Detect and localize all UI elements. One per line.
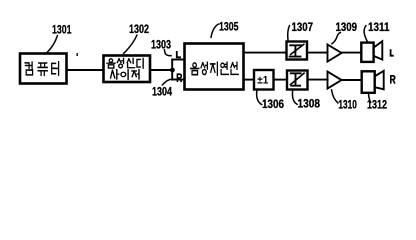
wire amp 1310 to speaker 1312 <box>342 79 362 81</box>
wire amp 1309 to speaker 1311 <box>342 52 362 54</box>
R channel letter at speaker 1312 <box>391 76 395 84</box>
L channel letter at 1305 input <box>177 51 181 57</box>
leader line 1312 <box>369 94 371 103</box>
label text 음성지연선 (voice delay line) <box>191 62 239 75</box>
amplifier triangle 1309 <box>328 45 342 62</box>
R channel letter at 1305 input <box>177 74 181 82</box>
variable attenuator block 1308 <box>287 71 308 90</box>
wire 1308 to amp 1310 <box>308 79 328 81</box>
wire 1302 to junction <box>150 69 172 71</box>
attenuator symbol in 1308 <box>290 73 304 86</box>
svg-text:1309: 1309 <box>336 20 358 34</box>
svg-text:1307: 1307 <box>292 20 314 34</box>
computer block 1301 <box>20 54 67 84</box>
variable attenuator block 1307 <box>287 42 308 60</box>
svg-text:1308: 1308 <box>298 97 321 111</box>
label text 사이저 (sizer line2) <box>111 70 139 80</box>
wire 1305 to 1307 (top row) <box>244 52 287 54</box>
leader line 1310 <box>332 90 339 103</box>
svg-text:1302: 1302 <box>129 22 149 36</box>
label text 컴퓨터 (computer) <box>25 62 59 76</box>
leader line 1303 <box>164 50 171 56</box>
wire 1305 to 1306 (bottom row) <box>244 79 255 81</box>
stray scan mark <box>76 53 78 56</box>
leader line 1301 <box>47 36 58 54</box>
voice synthesizer block 1302 <box>104 56 151 83</box>
L channel letter at speaker 1311 <box>391 49 394 56</box>
attenuator symbol in 1307 <box>290 44 304 56</box>
leader line 1307 <box>288 26 290 41</box>
svg-text:1303: 1303 <box>151 38 171 52</box>
polarity inverter block 1306 (±1) <box>254 70 274 90</box>
wire L stub into 1305 <box>172 59 184 61</box>
svg-text:1305: 1305 <box>219 20 239 34</box>
label text 음성신디 (voice synth line1) <box>107 58 143 68</box>
svg-text:±1: ±1 <box>257 75 268 87</box>
leader line 1306 <box>257 91 262 105</box>
leader line 1309 <box>332 33 341 44</box>
svg-text:1304: 1304 <box>152 84 172 98</box>
svg-text:1311: 1311 <box>368 20 390 34</box>
speaker 1312 (R) <box>362 71 384 93</box>
amplifier triangle 1310 <box>328 72 342 89</box>
svg-text:1301: 1301 <box>52 23 72 37</box>
junction node dot <box>170 68 175 73</box>
leader line 1311 <box>364 26 367 42</box>
speaker 1311 (L) <box>361 41 382 62</box>
svg-text:1306: 1306 <box>262 97 284 111</box>
vertical splitter wire <box>171 60 173 80</box>
voice delay line block 1305 <box>185 44 244 90</box>
wire R stub into 1305 <box>172 79 184 81</box>
leader line 1308 <box>292 91 297 105</box>
leader line 1304 <box>162 79 174 85</box>
leader line 1302 <box>124 35 138 54</box>
wire 1301 to 1302 <box>67 69 104 71</box>
wire 1307 to amp 1309 <box>307 52 328 54</box>
wire 1306 to 1308 <box>274 79 287 81</box>
svg-text:1310: 1310 <box>338 97 357 111</box>
leader line 1305 <box>211 24 219 38</box>
